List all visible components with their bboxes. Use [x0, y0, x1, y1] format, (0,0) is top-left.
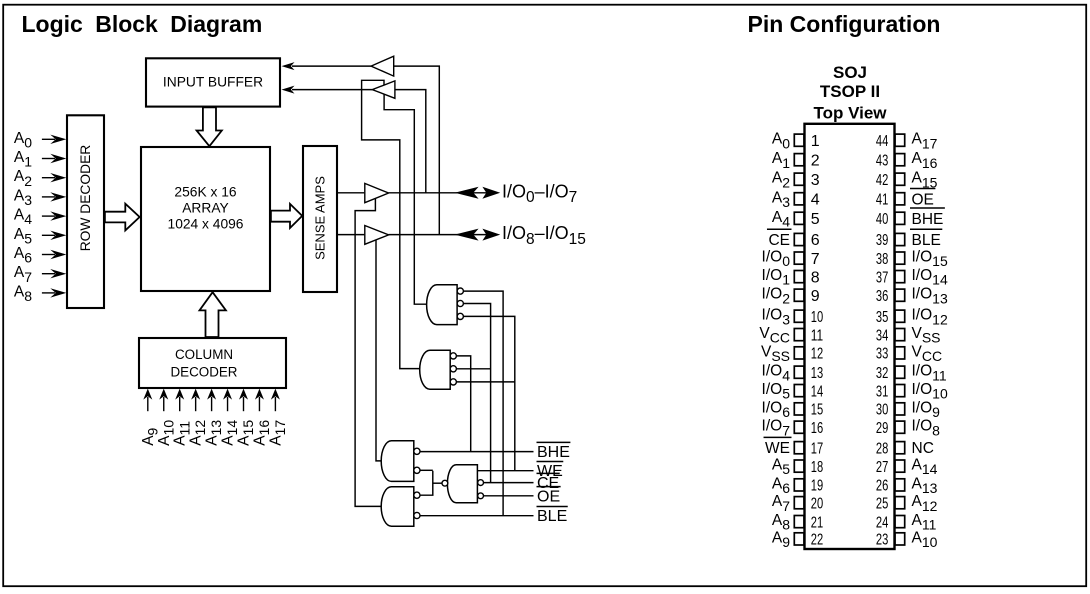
svg-text:Top View: Top View — [813, 103, 887, 122]
svg-text:38: 38 — [876, 251, 888, 268]
svg-text:13: 13 — [811, 365, 823, 382]
svg-text:5: 5 — [811, 211, 820, 228]
svg-text:40: 40 — [876, 211, 888, 228]
svg-text:29: 29 — [876, 420, 888, 437]
svg-text:BHE: BHE — [537, 444, 570, 461]
svg-text:24: 24 — [876, 514, 888, 531]
svg-text:21: 21 — [811, 514, 823, 531]
svg-text:22: 22 — [811, 532, 823, 549]
svg-text:16: 16 — [811, 420, 823, 437]
svg-text:14: 14 — [811, 383, 823, 400]
svg-text:6: 6 — [811, 232, 820, 249]
svg-text:34: 34 — [876, 327, 888, 344]
svg-text:OE: OE — [912, 191, 934, 208]
svg-text:WE: WE — [765, 440, 790, 457]
svg-text:BLE: BLE — [912, 232, 941, 249]
svg-text:30: 30 — [876, 402, 888, 419]
svg-text:11: 11 — [811, 327, 823, 344]
svg-text:BHE: BHE — [912, 211, 944, 228]
svg-text:OE: OE — [537, 488, 560, 505]
svg-text:SOJ: SOJ — [833, 63, 867, 82]
svg-text:15: 15 — [811, 402, 823, 419]
svg-text:18: 18 — [811, 459, 823, 476]
svg-text:DECODER: DECODER — [171, 365, 238, 380]
svg-text:37: 37 — [876, 269, 888, 286]
svg-text:36: 36 — [876, 288, 888, 305]
svg-text:26: 26 — [876, 478, 888, 495]
svg-text:BLE: BLE — [537, 508, 567, 525]
svg-text:4: 4 — [811, 192, 820, 209]
svg-text:CE: CE — [768, 232, 790, 249]
svg-text:SENSE AMPS: SENSE AMPS — [313, 176, 328, 260]
svg-text:35: 35 — [876, 309, 888, 326]
svg-text:INPUT BUFFER: INPUT BUFFER — [163, 74, 263, 89]
svg-text:20: 20 — [811, 495, 823, 512]
svg-text:9: 9 — [811, 288, 820, 305]
svg-text:17: 17 — [811, 440, 823, 457]
svg-text:COLUMN: COLUMN — [175, 347, 233, 362]
svg-text:10: 10 — [811, 309, 823, 326]
svg-text:31: 31 — [876, 383, 888, 400]
svg-text:NC: NC — [912, 440, 934, 457]
svg-text:1024 x 4096: 1024 x 4096 — [168, 216, 244, 231]
svg-text:Pin Configuration: Pin Configuration — [748, 11, 941, 37]
svg-text:25: 25 — [876, 495, 888, 512]
svg-text:7: 7 — [811, 251, 820, 268]
svg-text:39: 39 — [876, 232, 888, 249]
svg-text:8: 8 — [811, 269, 820, 286]
svg-text:23: 23 — [876, 532, 888, 549]
svg-text:44: 44 — [876, 133, 888, 150]
svg-text:3: 3 — [811, 172, 820, 189]
svg-text:43: 43 — [876, 152, 888, 169]
svg-text:1: 1 — [811, 133, 820, 150]
svg-text:33: 33 — [876, 346, 888, 363]
svg-text:ARRAY: ARRAY — [182, 200, 229, 215]
svg-text:28: 28 — [876, 440, 888, 457]
svg-text:256K x 16: 256K x 16 — [174, 184, 236, 199]
svg-text:32: 32 — [876, 365, 888, 382]
svg-text:19: 19 — [811, 478, 823, 495]
svg-text:TSOP II: TSOP II — [820, 82, 880, 101]
svg-text:41: 41 — [876, 192, 888, 209]
svg-text:12: 12 — [811, 346, 823, 363]
svg-text:2: 2 — [811, 152, 820, 169]
svg-text:27: 27 — [876, 459, 888, 476]
svg-text:42: 42 — [876, 172, 888, 189]
svg-text:ROW DECODER: ROW DECODER — [78, 145, 93, 252]
svg-text:Logic Block Diagram: Logic Block Diagram — [22, 11, 263, 37]
